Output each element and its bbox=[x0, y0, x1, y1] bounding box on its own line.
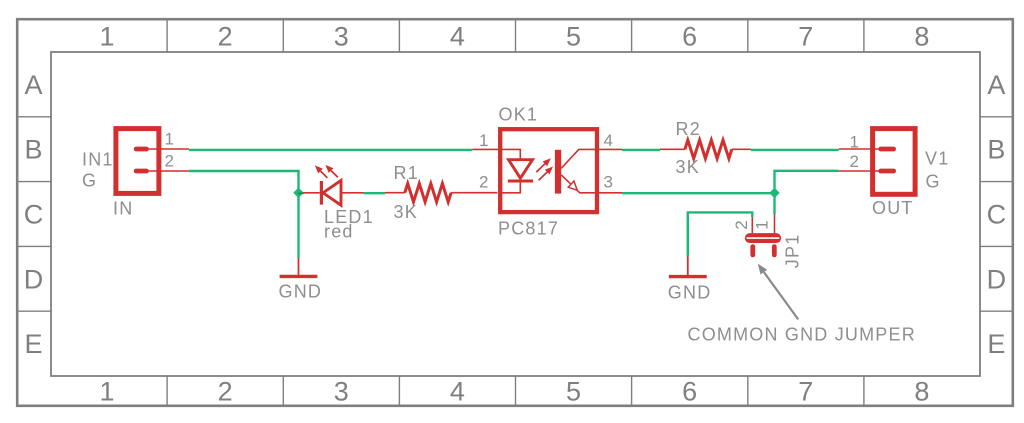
svg-text:2: 2 bbox=[218, 377, 233, 407]
svg-text:G: G bbox=[926, 172, 941, 192]
svg-text:IN1: IN1 bbox=[82, 150, 114, 170]
svg-text:A: A bbox=[987, 70, 1005, 100]
junction dot at OUT GND node bbox=[769, 188, 779, 198]
svg-text:3: 3 bbox=[604, 173, 613, 192]
svg-text:1: 1 bbox=[479, 131, 488, 150]
svg-text:red: red bbox=[324, 222, 354, 242]
svg-text:1: 1 bbox=[99, 22, 114, 52]
svg-text:C: C bbox=[24, 200, 44, 230]
wire IN1 pin1 to OK1 pin1 bbox=[189, 149, 472, 151]
svg-text:C: C bbox=[987, 200, 1007, 230]
svg-text:3K: 3K bbox=[394, 202, 418, 222]
svg-text:3K: 3K bbox=[676, 157, 700, 177]
svg-text:G: G bbox=[82, 171, 97, 191]
frame row labels right bbox=[987, 70, 1007, 359]
svg-text:2: 2 bbox=[165, 152, 174, 171]
OK1 internal LED bbox=[472, 149, 533, 192]
ground GND right bbox=[669, 256, 707, 277]
svg-text:R2: R2 bbox=[676, 119, 701, 139]
svg-text:3: 3 bbox=[334, 377, 349, 407]
svg-text:IN: IN bbox=[113, 198, 133, 218]
wire junction down to JP1 pin1 bbox=[773, 193, 775, 214]
svg-text:GND: GND bbox=[668, 283, 712, 303]
svg-text:B: B bbox=[24, 135, 42, 165]
svg-text:OUT: OUT bbox=[872, 198, 914, 218]
svg-text:A: A bbox=[24, 70, 42, 100]
wire OK1 pin3 to junction bbox=[622, 192, 775, 194]
frame column labels top bbox=[99, 22, 929, 52]
svg-text:2: 2 bbox=[218, 22, 233, 52]
resistor R2 bbox=[660, 140, 751, 158]
svg-text:PC817: PC817 bbox=[498, 219, 559, 239]
svg-text:2: 2 bbox=[479, 173, 488, 192]
svg-text:6: 6 bbox=[682, 22, 697, 52]
jumper JP1 bbox=[747, 214, 780, 255]
svg-text:V1: V1 bbox=[925, 149, 949, 169]
LED LED1 bbox=[303, 165, 363, 205]
svg-text:D: D bbox=[24, 264, 44, 294]
wire LED1 to R1 bbox=[364, 192, 386, 194]
OK1 phototransistor bbox=[555, 149, 622, 193]
wire IN1 pin2 to junction and down to GND bbox=[189, 171, 299, 258]
svg-text:6: 6 bbox=[682, 377, 697, 407]
op-to coupler OK1 box bbox=[500, 129, 597, 212]
resistor R1 bbox=[385, 184, 498, 202]
svg-text:OK1: OK1 bbox=[499, 105, 539, 125]
OK1 emission arrows bbox=[536, 158, 553, 180]
svg-text:5: 5 bbox=[566, 22, 581, 52]
svg-text:1: 1 bbox=[753, 220, 772, 229]
svg-text:4: 4 bbox=[450, 377, 465, 407]
svg-text:D: D bbox=[987, 264, 1007, 294]
svg-text:7: 7 bbox=[798, 377, 813, 407]
wire right GND branch to JP1 pin2 bbox=[688, 212, 753, 256]
svg-text:JP1: JP1 bbox=[783, 234, 803, 269]
svg-text:E: E bbox=[24, 329, 42, 359]
svg-text:1: 1 bbox=[165, 130, 174, 149]
junction dot at LED1 node bbox=[293, 188, 303, 198]
connector V1 bbox=[839, 129, 915, 195]
svg-text:E: E bbox=[987, 329, 1005, 359]
svg-text:3: 3 bbox=[334, 22, 349, 52]
svg-text:2: 2 bbox=[850, 152, 859, 171]
svg-text:GND: GND bbox=[279, 282, 323, 302]
ground GND left bbox=[280, 258, 318, 276]
svg-text:4: 4 bbox=[450, 22, 465, 52]
svg-text:7: 7 bbox=[798, 22, 813, 52]
svg-text:8: 8 bbox=[914, 22, 929, 52]
svg-text:R1: R1 bbox=[394, 163, 419, 183]
svg-text:1: 1 bbox=[99, 377, 114, 407]
svg-text:8: 8 bbox=[914, 377, 929, 407]
wire OK1 pin4 to R2 bbox=[622, 149, 660, 151]
svg-text:B: B bbox=[987, 135, 1005, 165]
svg-text:1: 1 bbox=[850, 133, 859, 152]
svg-text:4: 4 bbox=[604, 131, 613, 150]
frame column labels bottom bbox=[99, 377, 929, 407]
svg-text:COMMON GND JUMPER: COMMON GND JUMPER bbox=[688, 325, 916, 345]
connector IN1 bbox=[116, 129, 189, 194]
frame row labels left bbox=[24, 70, 44, 359]
wire R2 to V1 pin1 bbox=[751, 149, 839, 151]
annotation arrow bbox=[758, 264, 799, 320]
wire junction up to V1 pin2 bbox=[775, 171, 839, 193]
svg-text:2: 2 bbox=[732, 220, 751, 229]
svg-text:5: 5 bbox=[566, 377, 581, 407]
